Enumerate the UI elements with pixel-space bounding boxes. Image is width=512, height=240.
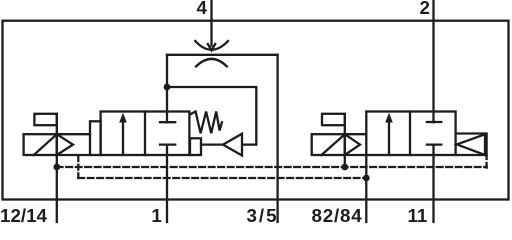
pilot piston rect (valve V1 right side) (190, 138, 201, 155)
wire check valve to piston (201, 143, 223, 145)
pilot check triangle (left valve) (223, 134, 242, 156)
dashed pilot line 2 (y=178) (78, 177, 366, 179)
svg-text:11: 11 (407, 205, 427, 225)
svg-text:82/84: 82/84 (312, 205, 363, 225)
svg-text:4: 4 (197, 0, 208, 18)
wire port 3/5 riser (276, 55, 278, 222)
junction dot V2 pilot (341, 164, 348, 171)
valve V1 body divider (144, 112, 146, 156)
arrowhead port 4 (down) (208, 44, 215, 50)
valve V2 blocked port bottom T crossbar (427, 143, 441, 145)
wire node 4 riser (to valve V1 top port) (166, 55, 168, 122)
solenoid pilot triangle V1 (57, 134, 73, 155)
solenoid coil V2 (312, 134, 345, 155)
svg-text:1: 1 (151, 205, 161, 225)
valve V2 flow arrow head (385, 113, 393, 123)
solenoid coil V1 (24, 134, 57, 155)
manual override V1 (34, 114, 56, 125)
valve V1 blocked port top T crossbar (160, 121, 175, 123)
valve V1 pilot stage rect (90, 121, 101, 155)
valve V1 blocked port bottom T crossbar (160, 143, 175, 145)
wire V2 pole and coil edge (344, 114, 346, 167)
enclosure border frame (3, 21, 509, 200)
pilot channel lines V2 (345, 134, 367, 155)
nozzle lower arc (emitter) (196, 59, 227, 67)
manual override V2 (322, 114, 345, 125)
valve V2 blocked port top T crossbar (427, 121, 441, 123)
valve V1 flow arrow head (119, 113, 127, 123)
dashed pilot line 2 vertical tap (77, 156, 79, 178)
svg-text:12/14: 12/14 (0, 205, 48, 225)
svg-text:2: 2 (420, 0, 430, 18)
wire port 1 line (166, 145, 168, 222)
solenoid pilot triangle V2 (345, 134, 360, 155)
dashed riser to air spring (485, 156, 487, 168)
wire port 2 line into top T (432, 0, 434, 122)
junction dot node A (164, 84, 171, 91)
wire port 11 line (432, 145, 434, 222)
valve V2 flow arrow shaft (388, 121, 390, 156)
dashed pilot line 1 (y=167) (57, 166, 487, 168)
junction dot 12/14 pilot takeoff (53, 164, 60, 171)
junction dot 82/84 (363, 175, 370, 182)
wire supply header y=55 (167, 54, 278, 56)
valve V2 body divider (409, 112, 411, 156)
wire port 4 line (210, 0, 212, 46)
wire port 12/14 main vertical (56, 114, 58, 222)
svg-text:3/5: 3/5 (246, 205, 278, 225)
solenoid coil V1 diagonal (34, 135, 57, 155)
wire port 82/84 line (365, 155, 367, 222)
valve V1 body (101, 112, 190, 156)
valve V2 body (366, 112, 455, 156)
wire pilot branch to check valve (167, 87, 256, 145)
spring (valve V1 return) (190, 112, 222, 134)
nozzle upper arc (receiver) (195, 41, 228, 50)
solenoid coil V2 diagonal (322, 135, 345, 155)
pilot channel lines V1 (57, 134, 90, 155)
air spring triangle V2 (457, 134, 485, 155)
valve V1 flow arrow shaft (122, 121, 124, 156)
air spring box V2 (456, 134, 487, 156)
